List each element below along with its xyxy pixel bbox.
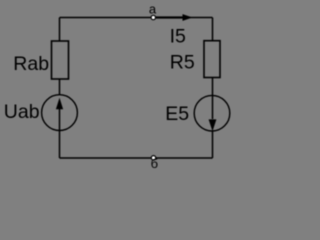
svg-text:Rab: Rab bbox=[13, 53, 49, 75]
svg-text:Uab: Uab bbox=[4, 101, 40, 123]
svg-text:a: a bbox=[149, 1, 157, 16]
svg-text:E5: E5 bbox=[165, 103, 189, 125]
svg-text:б: б bbox=[151, 156, 158, 171]
svg-text:R5: R5 bbox=[170, 51, 195, 73]
svg-text:I5: I5 bbox=[170, 26, 186, 48]
